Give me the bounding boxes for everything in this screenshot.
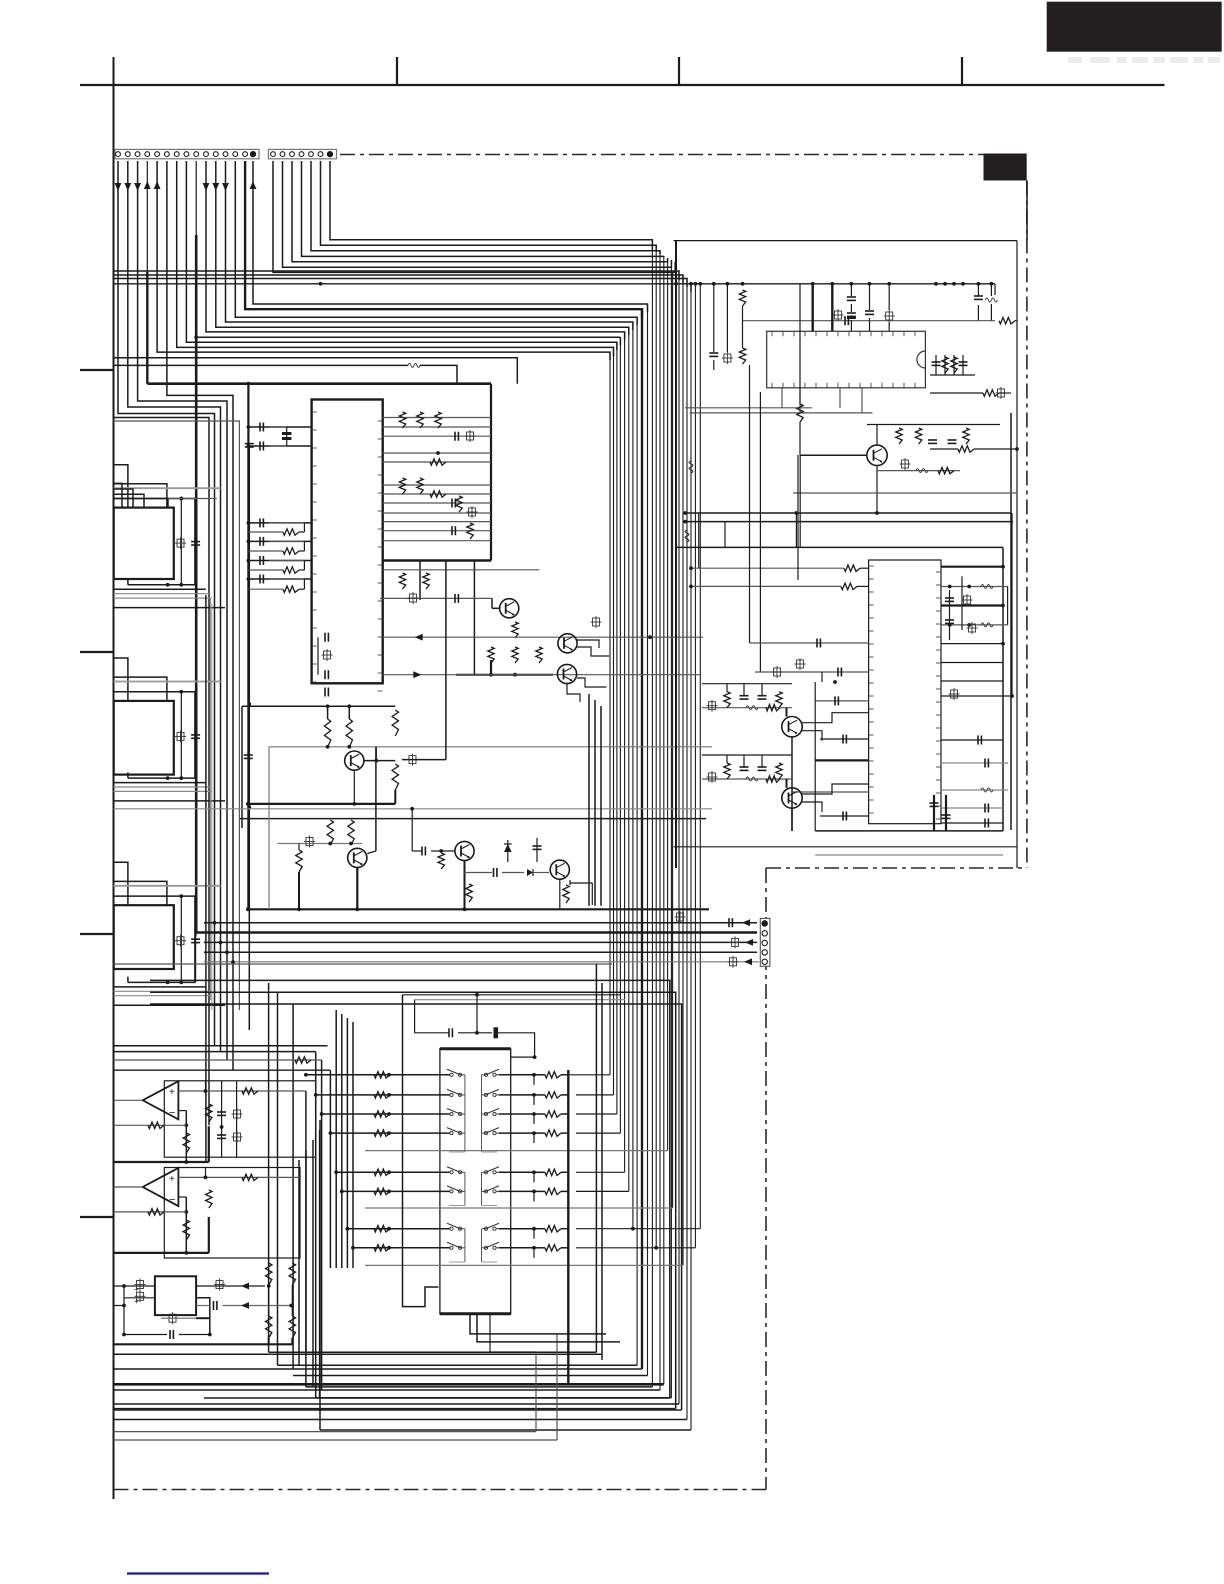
switch left row y1247.8: [351, 1245, 449, 1251]
page top ruler line: [80, 84, 1165, 86]
connector CN3: [760, 918, 770, 966]
wires into U-C top: [114, 862, 221, 982]
svg-text:+: +: [169, 1087, 175, 1098]
U3B thick output join: [114, 1217, 209, 1253]
CN1 pin4 wire thick: [144, 161, 151, 384]
U1 left res row y589.2: [248, 579, 304, 592]
phantom dash-dot mid vertical: [765, 868, 767, 1490]
switch S1R: [482, 1069, 505, 1076]
switch right row y1191.4: [499, 1188, 568, 1201]
Q5 emitter thick: [356, 868, 358, 909]
res below U3A: [183, 1133, 189, 1153]
bundle wire v18 x679: [678, 271, 680, 1404]
transistor Q9: [782, 717, 802, 737]
Q3 wires: [567, 678, 607, 702]
left border tick y934: [80, 933, 114, 935]
rail end parts: [974, 284, 998, 321]
switch left row y1074.8: [304, 1072, 450, 1078]
switch left bypass wire: [403, 995, 439, 1307]
center left vertical x242: [241, 706, 243, 828]
diode up D2: [504, 840, 512, 862]
Q9 RC bank: [702, 684, 792, 712]
U4 left row2: [124, 1290, 155, 1306]
U4 left row1: [114, 1279, 155, 1295]
bottom bus wire y1365.2: [278, 1364, 638, 1366]
CN1 pin5 wire: [154, 161, 610, 360]
switch feed riser x268.6: [268, 983, 270, 1352]
node row y598: [380, 592, 492, 604]
wire from corner x1027 down: [1026, 181, 1028, 241]
parts above U2: [813, 284, 895, 332]
shield box B1 bottom edge: [383, 559, 491, 561]
U3A minus net: [178, 1111, 188, 1164]
black grid label box: [984, 154, 1027, 181]
op-amp box U3B: [164, 1168, 300, 1259]
CN1 pin11 wire: [212, 161, 628, 335]
U3A output wire: [114, 1099, 143, 1101]
riser x319.6: [319, 1130, 321, 1398]
gray long bus y808.8: [114, 807, 713, 851]
IC U-A bottom wires: [114, 579, 226, 608]
IC U-B bottom wires: [114, 772, 226, 801]
long right vertical x1011: [1010, 413, 1012, 830]
U1 left cap row y579: [247, 575, 312, 584]
CN2 pin5 wire: [311, 161, 660, 254]
switch S3L: [443, 1109, 465, 1116]
transistor Q5: [348, 848, 367, 867]
res below Q1: [488, 622, 542, 663]
U1 left cap row y522.9: [247, 518, 312, 527]
bundle wire v21 x691: [690, 284, 692, 1430]
wires into U-A top: [114, 483, 217, 506]
bottom bus wire y1398: [204, 1397, 670, 1399]
long wire x249.3: [247, 447, 251, 1030]
IC U1 right row y530.7: [383, 530, 491, 532]
gray ctrl line y320.7: [743, 309, 996, 325]
U3B RC cluster: [206, 1168, 213, 1209]
IC U2: [767, 331, 926, 388]
IC U-C bottom wires: [114, 977, 226, 1006]
feed y1060: [114, 1057, 322, 1063]
riser x320 up: [319, 1120, 321, 1430]
connector CN2 strip: [268, 149, 336, 158]
bundle wire v23 x700.3: [699, 284, 701, 1229]
bundle wire v3 x616.9: [616, 342, 618, 1114]
switch feed riser x305.9: [305, 1091, 307, 1387]
U2 left parts: [709, 282, 733, 370]
wires under shield box: [420, 561, 474, 675]
E2 inner verticals: [815, 672, 822, 831]
bottom bus wire y1408.6: [114, 1408, 676, 1410]
switch left row y1114: [320, 1111, 450, 1117]
IC U1 right row y453: [383, 452, 491, 454]
CN1 pin13 wire: [235, 161, 637, 325]
res pair above Q5: [327, 820, 354, 845]
IC block U-C: [114, 905, 174, 969]
switch top net line: [403, 993, 621, 997]
switch col rail g2R: [482, 1172, 498, 1205]
switch matrix box: [440, 1049, 511, 1314]
Q6 base feed: [412, 847, 454, 856]
op-amp U3B: [143, 1168, 179, 1206]
switch feed riser x315.7: [315, 1052, 317, 1398]
switch feed riser x277.5: [277, 992, 279, 1365]
CN2 pin2 wire: [283, 161, 672, 267]
wires into U-B top: [114, 658, 221, 778]
switch S5R: [482, 1167, 505, 1174]
switch right row y1133.1: [499, 1130, 568, 1143]
riser x536: [535, 1352, 537, 1431]
IC U1 right row y436.2: [383, 435, 491, 437]
Q8 base wire: [800, 445, 866, 455]
IC U-B right components: [175, 692, 200, 778]
bundle wire v11 x652.4: [651, 240, 653, 1387]
switch col rail g3R: [482, 1229, 498, 1262]
U5 feed verticals: [699, 513, 797, 568]
CN1 pin9 wire thick: [194, 161, 620, 933]
phantom dash-dot top: [340, 154, 984, 156]
bundle ext x601: [600, 706, 602, 906]
net bus line y278.5: [114, 279, 688, 288]
thin long bus y818.6: [240, 818, 706, 820]
U4 cap row: [124, 1330, 212, 1339]
phantom dash-dot bottom horizontal: [114, 1489, 767, 1491]
res network right of U1a: [399, 412, 475, 465]
riser x557: [556, 1334, 558, 1440]
transistor Q2: [558, 634, 577, 653]
switch right row y1228.7: [499, 1226, 568, 1239]
enclosure E1 top: [674, 240, 1018, 242]
switch right row y1094.9: [499, 1092, 568, 1105]
switch left row y1094.9: [314, 1092, 450, 1098]
IC U5: [869, 560, 941, 824]
bundle wire v7 x632.9: [632, 322, 634, 1229]
CN1 pin1 wire: [115, 161, 215, 1046]
IC U5 pin stubs: [869, 566, 941, 819]
Q8 emitter net: [877, 458, 960, 513]
op-amp U3A: [143, 1081, 179, 1119]
bottom gray bus y1431.6: [114, 1431, 537, 1433]
IC U1 right row y540.7: [383, 540, 491, 542]
bottom thick bus y1384.3: [114, 1383, 664, 1386]
gray v269 extend: [268, 816, 270, 909]
bundle wire v10 x647.5: [647, 304, 649, 1376]
IC U1 right row y485: [383, 484, 491, 486]
Q8 collector up: [867, 425, 1000, 446]
switch top gray line: [415, 999, 625, 1001]
res R top right: [999, 318, 1017, 324]
op-amp box U3A: [164, 1081, 315, 1157]
Q1 base wire: [492, 598, 500, 608]
U3B gray fb line: [114, 1209, 187, 1215]
bundle wire v1 x610: [609, 352, 611, 1075]
Q9 wires: [782, 708, 869, 831]
bundle ext x589: [588, 694, 590, 906]
cap C x537: [533, 838, 542, 862]
bottom gray bus y1440: [114, 1439, 558, 1441]
svg-text:+: +: [169, 1174, 175, 1185]
switch feed riser x353: [352, 1022, 354, 1268]
bundle wire v12 x656.2: [655, 245, 657, 1248]
bundle wire v14 x663.8: [663, 256, 665, 1384]
collector thick x568: [567, 1070, 569, 1384]
Q10 wires: [782, 779, 869, 831]
bus y932.5 thick: [196, 911, 757, 933]
switch S7L: [443, 1223, 465, 1230]
ruler tick 3: [961, 57, 963, 85]
riser x299: [298, 1160, 300, 1365]
U5 right thick cols2: [930, 795, 951, 831]
switch S3R: [482, 1109, 505, 1116]
switch left row y1133.1: [329, 1130, 450, 1136]
box E2 top: [676, 546, 1004, 548]
U5 left cap rows: [750, 639, 869, 821]
switch S4R: [482, 1128, 505, 1135]
enclosure E1 left thick: [675, 241, 677, 868]
vertical x765 long: [759, 392, 761, 672]
bundle wire v9 x642: [641, 309, 643, 1369]
left bundle wire x239: [114, 421, 240, 1010]
CN2 pin1 wire: [273, 161, 675, 272]
CN2 pin7 wire: [330, 161, 652, 250]
switch gray row y1208: [365, 1207, 673, 1209]
res trio above Q4: [324, 710, 398, 747]
bottom bus wire y1419.5: [114, 1419, 688, 1421]
transistor Q8: [867, 445, 887, 465]
bus y952.2: [204, 951, 757, 953]
bottom bus wire y1410: [114, 1409, 682, 1411]
bundle ext risers low: [596, 964, 602, 1360]
transistor Q7: [550, 860, 569, 879]
CN1 pin7 wire: [177, 161, 614, 356]
transistor Q4: [345, 751, 364, 770]
cap on x249 top: [245, 444, 254, 447]
switch top cap net: [415, 995, 537, 1059]
svg-text:−: −: [169, 1107, 175, 1119]
Q10 RC bank: [702, 755, 792, 783]
net bus line y275: [114, 275, 684, 284]
gray row y746.8: [269, 745, 712, 817]
switch left row y1172.3: [334, 1169, 449, 1175]
switch gray row y1150.6: [365, 1150, 668, 1152]
switch S5L: [443, 1167, 465, 1174]
long line y513: [683, 511, 1011, 515]
bundle wire v15 x667.6: [667, 262, 669, 1151]
bundle wire v5 x624.6: [624, 332, 626, 1172]
coil on wire x691 upper: [689, 461, 693, 473]
CN1 pin15 wire: [250, 161, 648, 312]
switch bottom wires: [470, 1314, 620, 1352]
bottom bus wire y1386.9: [306, 1386, 653, 1388]
CN2 pin4 wire: [302, 161, 664, 256]
switch right row y1172.3: [499, 1169, 568, 1182]
IC U1 main: [312, 400, 383, 684]
feed y1004: [150, 1004, 682, 1410]
U1 left cap row y446: [247, 442, 312, 451]
switch S6L: [443, 1186, 465, 1193]
Q4 collector net: [365, 561, 446, 766]
switch gray row y1265.4: [365, 1264, 683, 1266]
bundle wire v2 x613.5: [613, 347, 615, 1095]
U5 input res rows: [689, 565, 869, 590]
coil on wire x687 lower: [685, 530, 689, 542]
bottom bus wire y1354.3: [114, 1353, 603, 1355]
U4 left row3: [114, 1305, 125, 1307]
box E2 bottom: [815, 830, 1003, 832]
IC U2 pin stubs: [772, 331, 915, 388]
bundle wire v17 x672.6: [672, 272, 674, 1208]
bottom bus wire y1404: [114, 1403, 680, 1405]
IC U1 right row y521.6: [383, 521, 491, 523]
long line y521.6: [683, 520, 1013, 524]
bottom bus wire y1430: [320, 1429, 691, 1431]
bus y942.4: [204, 936, 757, 948]
res R above Q1: [399, 573, 429, 589]
bundle wire v22 x695.4: [694, 284, 696, 1248]
U2 bottom gray wires: [685, 388, 873, 413]
U5 right rows: [941, 513, 1014, 828]
left border tick y652: [80, 651, 114, 653]
Q2 wires: [577, 640, 609, 656]
CN1 pin14 wire thick: [245, 161, 642, 318]
shield box B1 top bus thick: [147, 382, 491, 386]
bottom bus wire y1375.5: [293, 1375, 647, 1377]
gray feed y569.8: [383, 569, 540, 571]
U1 left res row y570: [248, 561, 304, 574]
bottom bus wire y1397.7: [316, 1397, 672, 1399]
switch right row y1114: [499, 1111, 568, 1124]
right step wires: [568, 1075, 700, 1250]
feed y992.2: [150, 992, 676, 1408]
feed y964: [114, 963, 613, 965]
gray risers below U-A: [211, 599, 212, 1010]
bus y922.7: [204, 918, 757, 927]
IC U1 right row y494: [383, 493, 491, 495]
res R1 left: [739, 290, 745, 364]
switch S1L: [443, 1069, 465, 1076]
switch col rail g2L: [449, 1172, 465, 1205]
CN1 pin6 wire: [167, 161, 233, 1070]
U3B output wire: [114, 1186, 143, 1188]
center thick bus y803.9: [246, 802, 395, 806]
switch right row y1247.8: [499, 1245, 568, 1258]
cap on B1 edge: [244, 755, 253, 758]
res R2 bottom: [930, 387, 1011, 399]
U1 left res row y551: [248, 541, 304, 554]
switch S6R: [482, 1186, 505, 1193]
feed y1045.7: [114, 1045, 328, 1047]
bus dots on left bundle: [213, 921, 235, 964]
IC U1 right row y427: [383, 426, 491, 428]
gray line y674.7 arrow: [383, 671, 700, 678]
switch right row y1074.8: [499, 1072, 568, 1085]
Q5 base net: [278, 836, 363, 848]
IC U1 right row y503: [383, 502, 491, 504]
bundle wire v8 x637.1: [636, 317, 638, 1365]
bottom bus wire y1352.3: [269, 1351, 597, 1353]
transistor Q1: [500, 599, 519, 618]
U3A plus input net: [178, 1088, 306, 1094]
blue link underline: [127, 1572, 269, 1574]
caps near y645: [318, 633, 333, 697]
CN1 pin3 wire: [134, 161, 227, 1060]
page left border line: [113, 57, 115, 1499]
U4 right row1: [196, 1279, 271, 1291]
switch left row y1191.4: [340, 1188, 450, 1194]
left border tick y370: [80, 369, 114, 371]
res left of Q5: [296, 844, 302, 910]
Q4 emitter: [353, 771, 355, 804]
bundle wire v19 x683: [682, 275, 684, 1265]
U3A gray fb line: [114, 1122, 187, 1128]
switch S2R: [482, 1089, 505, 1096]
U3B minus net: [178, 1197, 188, 1255]
CN1 pin10 wire: [203, 161, 625, 340]
phantom dash-dot right vertical: [1026, 181, 1028, 869]
wire border y365.4 with coil: [114, 363, 458, 383]
IC U1 pin stubs: [312, 412, 383, 691]
wire border y357.7: [114, 358, 518, 384]
res below Q4 right: [392, 764, 398, 804]
gray line y637 with arrow: [383, 616, 703, 641]
vertical x749 long: [749, 365, 751, 643]
shield box B1 right edge: [490, 384, 492, 561]
IC U1 right row y462: [383, 461, 491, 463]
res below U3B: [183, 1220, 189, 1240]
U2 right parts: [930, 355, 975, 375]
switch feed riser x293.1: [292, 1004, 294, 1369]
CN2 pin6 wire: [321, 161, 657, 252]
Q6 emitter: [465, 861, 473, 909]
net bus line y271: [114, 271, 680, 280]
switch col rail g1R: [482, 1075, 498, 1152]
U4 right step: [196, 1298, 210, 1334]
shield box B1 left edge: [247, 384, 249, 910]
connector CN1 strip: [115, 149, 259, 158]
riser x306: [305, 1150, 307, 1352]
CN1 pin2 wire: [124, 161, 220, 1052]
wires into U-A top: [114, 465, 221, 585]
U4 bottom glyph: [161, 1312, 210, 1324]
row y449 with res: [930, 446, 1019, 452]
switch S2L: [443, 1089, 465, 1096]
U1 left cap row y427: [247, 423, 312, 432]
left border tick y1217: [80, 1216, 114, 1218]
Q8 feed: [797, 284, 803, 445]
IC U1 right row y513: [383, 512, 491, 514]
switch feed riser x347.4: [346, 1018, 348, 1268]
bundle wire v20 x687: [686, 279, 688, 1420]
IC block U-A: [114, 508, 174, 579]
svg-text:−: −: [169, 1194, 175, 1206]
feed y980.4: [150, 980, 670, 1398]
thick bus y1344.3: [114, 1338, 293, 1344]
switch S8L: [443, 1242, 465, 1249]
ruler tick 2: [678, 57, 680, 85]
switch feed riser x330.4: [329, 1070, 331, 1268]
switch col rail g1L: [449, 1075, 465, 1152]
IC U-A right components: [175, 499, 200, 585]
U1 left cap row y560.5: [247, 556, 312, 565]
thick stub: [490, 660, 492, 676]
switch feed riser x321.6: [321, 1060, 323, 1390]
res pair col x268 x292: [266, 1263, 296, 1338]
black title block: [1047, 2, 1222, 52]
switch feed riser x336.2: [335, 1010, 337, 1268]
res top stubs: [328, 706, 350, 747]
U5 right cap columns: [945, 576, 978, 640]
switch feed riser x341.8: [341, 1014, 343, 1268]
